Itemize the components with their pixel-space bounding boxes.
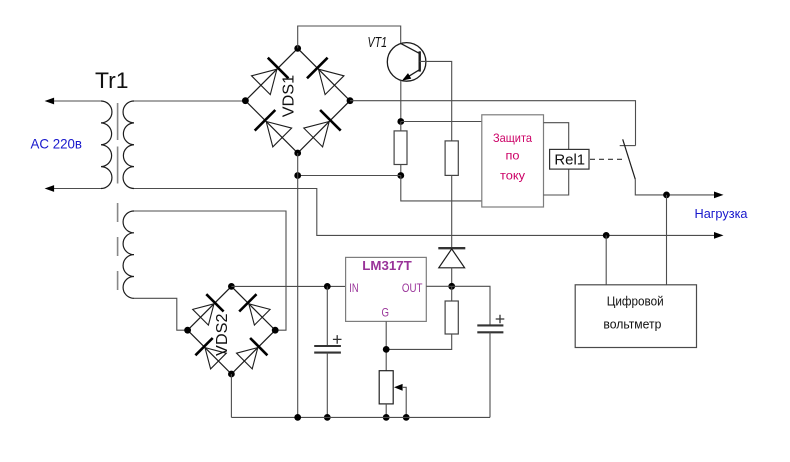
wire AC input top bbox=[54, 100, 101, 102]
resistor R2 bbox=[445, 141, 458, 176]
diode VDS2.D4 bbox=[237, 348, 258, 369]
diode VD1 bbox=[438, 247, 465, 249]
svg-text:вольтметр: вольтметр bbox=[603, 317, 661, 332]
potentiometer RP1 bbox=[379, 371, 393, 404]
wire VDS1 bottom node to ground rail bbox=[297, 153, 299, 417]
svg-text:Rel1: Rel1 bbox=[554, 152, 585, 169]
wire VDS1 top node to VT1 collector bbox=[298, 26, 401, 48]
wire secondary2 top to VDS2 right node bbox=[134, 211, 286, 330]
diode VDS2.D2 bbox=[249, 304, 270, 325]
label C1 plus bbox=[333, 335, 342, 344]
wire pot bottom to ground bbox=[385, 404, 387, 418]
arrow load output 1 bbox=[714, 192, 724, 199]
arrow AC bottom bbox=[45, 185, 55, 192]
capacitor C1 bbox=[326, 286, 328, 346]
node R1 bottom junction bbox=[397, 172, 404, 179]
switch contact SW1 bbox=[620, 145, 636, 147]
arrow AC top bbox=[45, 98, 55, 105]
wire ground rail bbox=[231, 416, 490, 418]
wire R1 bottom bbox=[400, 165, 402, 176]
node VDS1 B bbox=[294, 150, 301, 157]
node OUT junction bbox=[448, 283, 455, 290]
dashed link relay to switch bbox=[590, 158, 626, 160]
svg-text:AC 220в: AC 220в bbox=[31, 135, 83, 151]
node VDS2 T bbox=[228, 283, 235, 290]
wire secondary2 bottom to VDS2 left node bbox=[134, 298, 188, 330]
node voltmeter tap plus bbox=[663, 192, 670, 199]
VT1 emitter arrow bbox=[402, 73, 411, 81]
wire diode to OUT node bbox=[451, 268, 453, 287]
diode VDS1.D4 bbox=[304, 122, 329, 147]
block current protection bbox=[482, 115, 544, 207]
wire R3 bottom to G node bbox=[386, 334, 452, 349]
resistor R1 bbox=[394, 131, 407, 165]
wire protection to relay bottom bbox=[544, 169, 569, 195]
node VDS2 L bbox=[184, 327, 191, 334]
wire VDS2 top node to LM317 IN bbox=[231, 285, 345, 287]
wire AC input bottom bbox=[54, 188, 101, 190]
wire VT1 base bbox=[420, 61, 452, 140]
svg-text:Нагрузка: Нагрузка bbox=[695, 207, 748, 221]
regulator U1 LM317T box bbox=[346, 257, 427, 321]
wire switch to load plus bbox=[635, 179, 714, 195]
node pot bottom ground bbox=[383, 414, 390, 421]
wire VDS2 bottom to ground rail bbox=[230, 374, 232, 417]
wire R1 bottom to VDS1 minus line bbox=[298, 175, 401, 177]
diode VDS2.D3 bbox=[205, 348, 226, 369]
svg-text:LM317T: LM317T bbox=[362, 258, 412, 273]
transistor VT1 bbox=[387, 43, 426, 82]
bridge rectifier VDS2 bbox=[188, 286, 276, 374]
block digital voltmeter bbox=[575, 285, 696, 348]
transformer secondary winding 2 bbox=[123, 211, 134, 298]
transformer core bbox=[117, 103, 119, 187]
wire voltmeter plus bbox=[666, 195, 668, 285]
node VDS1 R bbox=[347, 97, 354, 104]
label C3 plus bbox=[496, 315, 505, 324]
node C1 top bbox=[324, 283, 331, 290]
node emitter/R1 top junction bbox=[397, 118, 404, 125]
wire protection to relay top bbox=[544, 123, 569, 150]
node VDS2 B bbox=[228, 371, 235, 378]
capacitor C3 bbox=[477, 324, 503, 326]
node wiper ground bbox=[403, 414, 410, 421]
diode VDS2.D1 bbox=[193, 304, 214, 325]
transformer secondary winding 1 bbox=[123, 101, 134, 189]
svg-text:G: G bbox=[382, 306, 390, 320]
svg-text:VT1: VT1 bbox=[368, 35, 388, 51]
node VDS1 T bbox=[294, 45, 301, 52]
bridge rectifier VDS1 bbox=[245, 48, 350, 153]
node on load minus wire bbox=[603, 232, 610, 239]
svg-text:VDS2: VDS2 bbox=[214, 314, 231, 357]
node on VDS1 minus vertical bbox=[294, 172, 301, 179]
svg-text:Защита: Защита bbox=[493, 131, 532, 145]
svg-text:по: по bbox=[506, 149, 520, 163]
svg-text:Цифровой: Цифровой bbox=[607, 294, 664, 309]
diode VDS1.D1 bbox=[252, 69, 277, 94]
svg-text:Tr1: Tr1 bbox=[95, 68, 129, 93]
node VDS1 L bbox=[242, 97, 249, 104]
resistor R3 bbox=[451, 286, 453, 301]
node G junction bbox=[383, 346, 390, 353]
wire secondary1 bottom jog to load minus bbox=[134, 189, 714, 236]
wire junction to protection box upper bbox=[401, 121, 482, 123]
diode VDS1.D2 bbox=[319, 69, 344, 94]
wire LM317 G pin bbox=[385, 321, 387, 370]
wire positive rail from VDS1 right node to switch bbox=[350, 101, 636, 146]
node VDS2 R bbox=[272, 327, 279, 334]
wire R2 to diode bbox=[451, 175, 453, 248]
arrow load output 2 bbox=[714, 232, 724, 239]
wire LM317 OUT to C3 bbox=[426, 286, 490, 325]
wire VT1 emitter down bbox=[400, 81, 402, 122]
transformer Tr1 primary winding bbox=[101, 101, 112, 189]
node VDS1 minus to rail bbox=[294, 414, 301, 421]
diode VDS1.D3 bbox=[266, 122, 291, 147]
relay coil Rel1 bbox=[550, 149, 589, 169]
wire secondary1 top to VDS1 left node bbox=[134, 100, 246, 102]
svg-text:току: току bbox=[500, 169, 525, 183]
svg-text:IN: IN bbox=[349, 281, 358, 295]
potentiometer wiper arrow bbox=[394, 384, 403, 391]
wire R1 junction to protection box lower bbox=[401, 176, 482, 201]
svg-text:VDS1: VDS1 bbox=[281, 75, 298, 118]
svg-text:OUT: OUT bbox=[402, 281, 423, 295]
node C1 ground bbox=[324, 414, 331, 421]
wire voltmeter minus bbox=[605, 235, 607, 284]
